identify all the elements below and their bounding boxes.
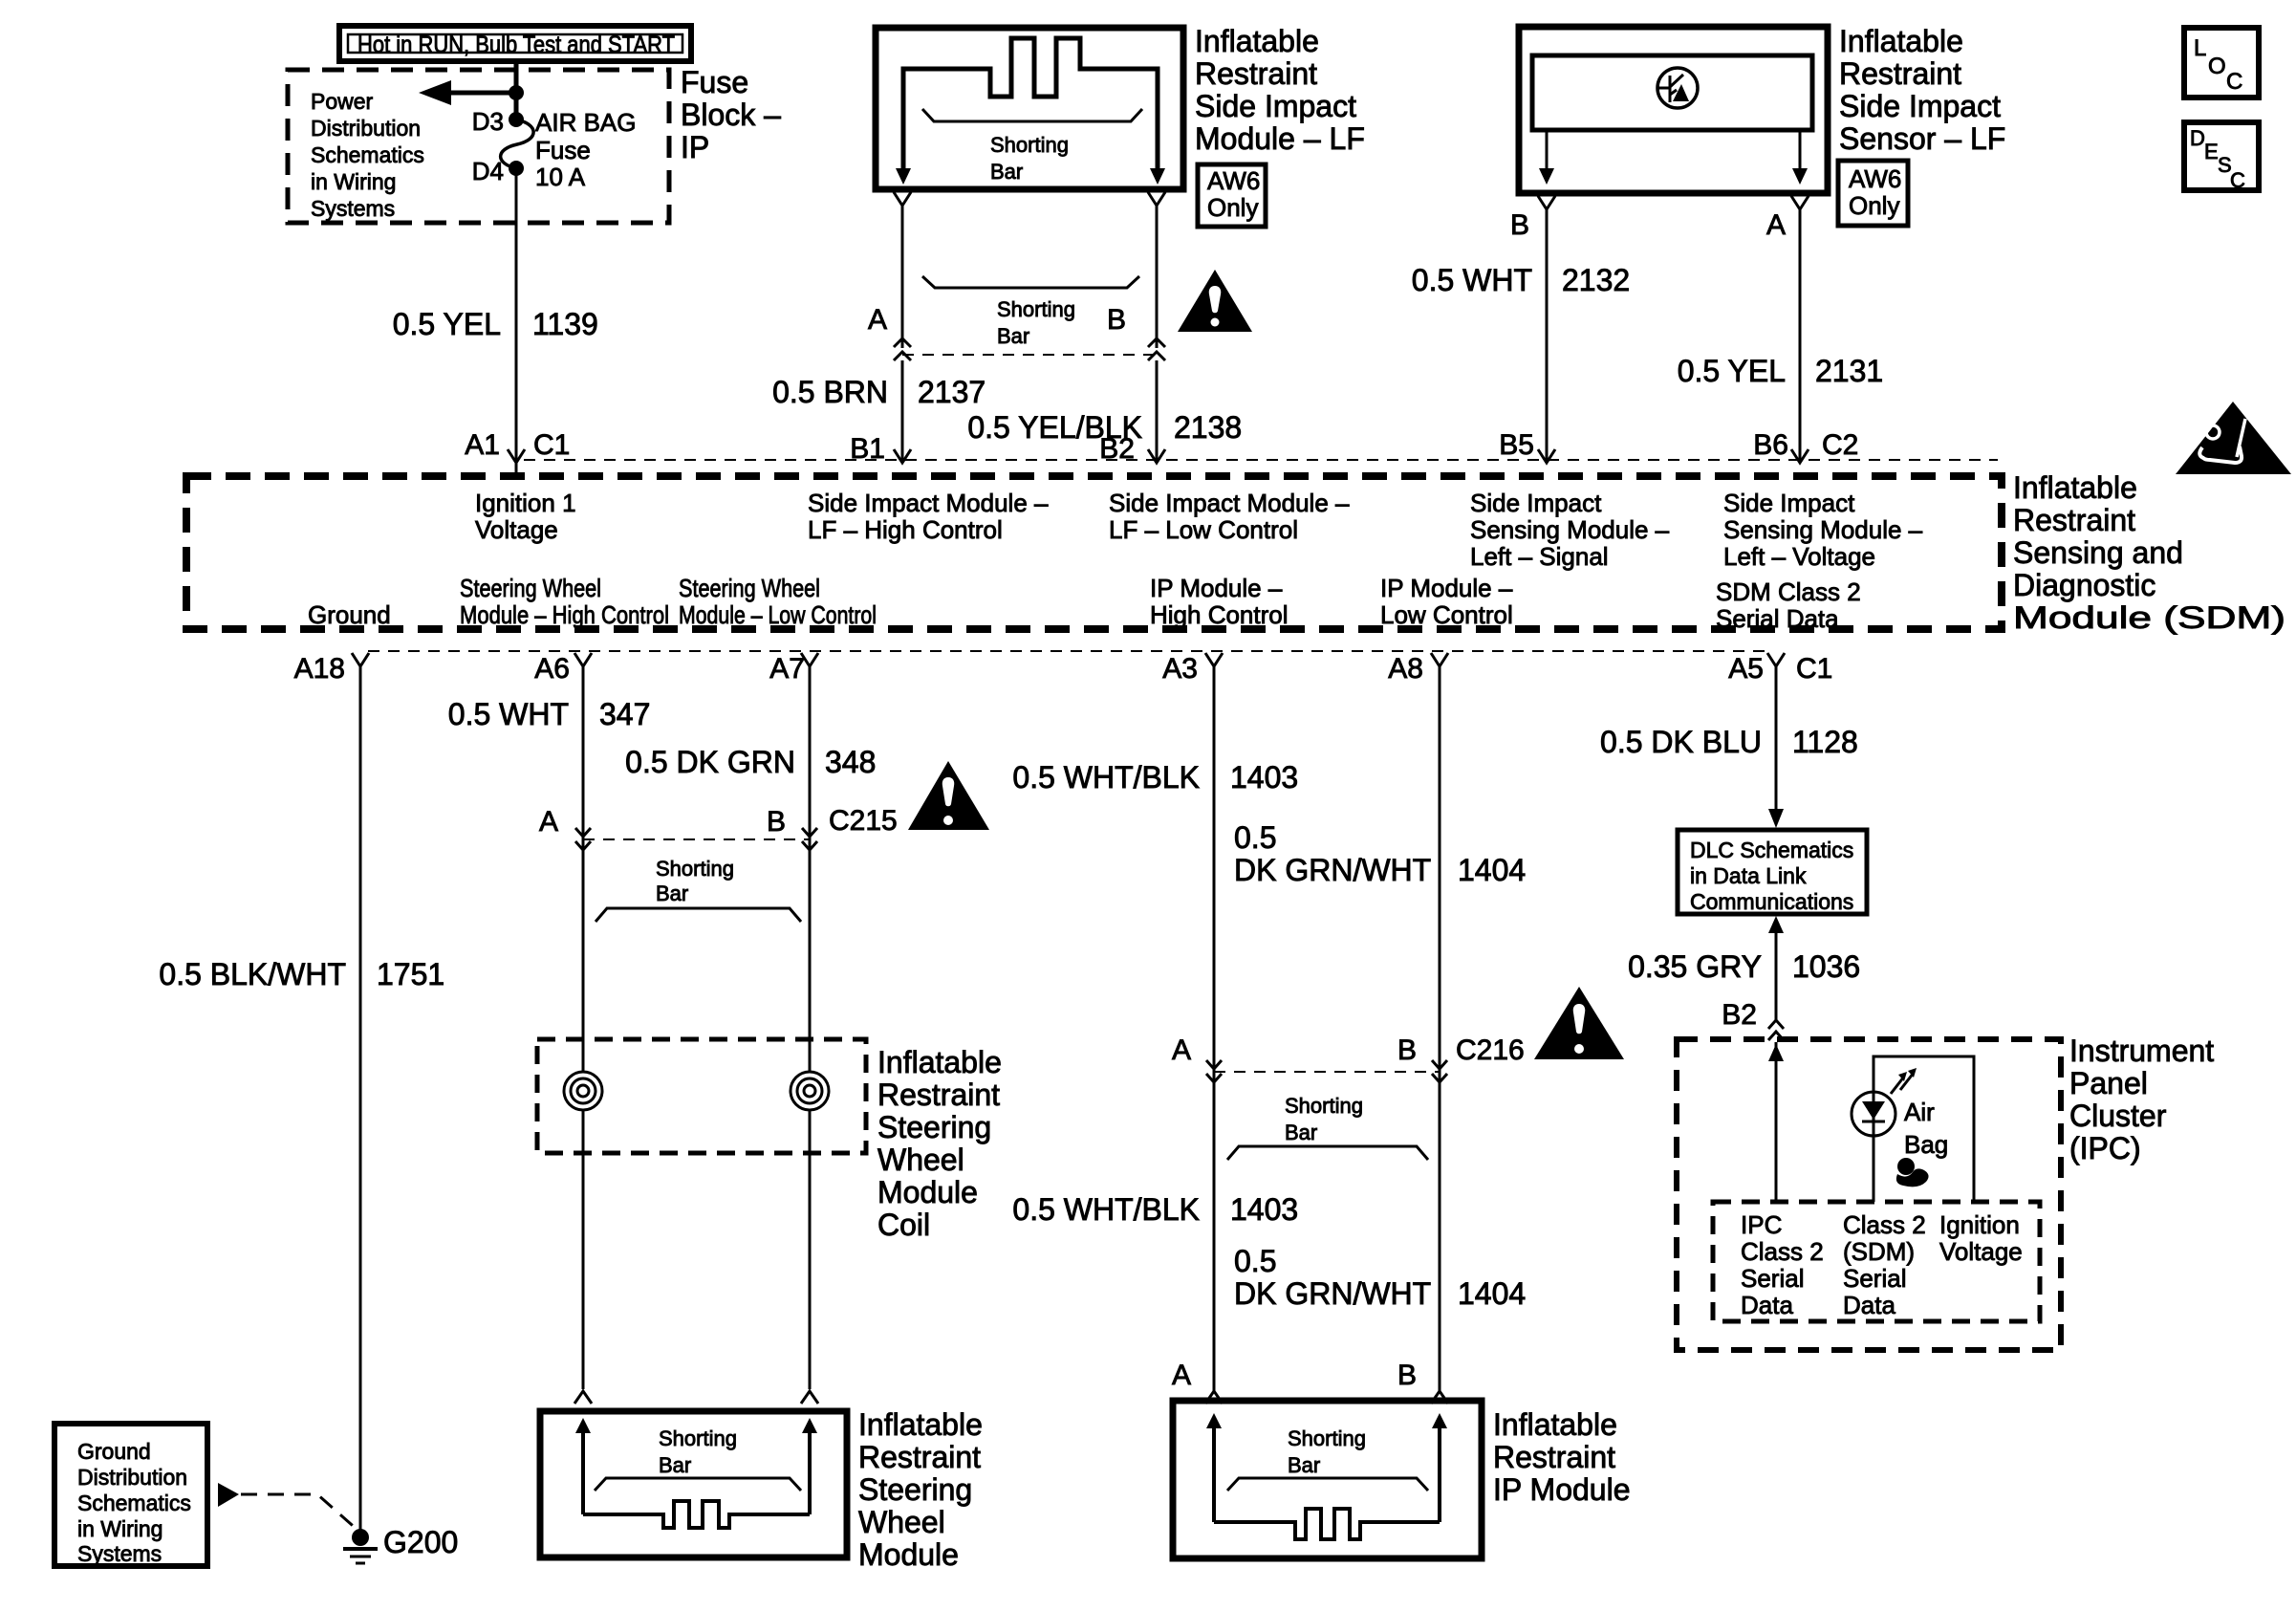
svg-text:Serial: Serial <box>1843 1264 1906 1293</box>
connector at SDM A1 <box>508 449 525 477</box>
wire 2138 to SDM B2 <box>1156 360 1159 463</box>
svg-text:Coil: Coil <box>877 1208 930 1242</box>
svg-text:Restraint: Restraint <box>1839 56 1961 91</box>
svg-text:A: A <box>1172 1360 1191 1391</box>
wire 1403 from SDM A3 <box>1213 666 1216 1391</box>
svg-text:Shorting: Shorting <box>1285 1094 1363 1118</box>
wire coil B to steering module <box>809 1109 812 1389</box>
svg-text:Bar: Bar <box>1285 1121 1317 1144</box>
svg-text:LF – Low Control: LF – Low Control <box>1109 515 1298 544</box>
svg-text:Sensing Module –: Sensing Module – <box>1723 515 1923 544</box>
warning triangle 2 <box>908 761 989 830</box>
node SDM pin function labels bottom row <box>308 574 1861 633</box>
svg-text:in Data Link: in Data Link <box>1690 863 1807 888</box>
svg-text:C1: C1 <box>1796 653 1832 685</box>
svg-text:0.5 WHT: 0.5 WHT <box>448 697 569 731</box>
svg-text:0.5 WHT: 0.5 WHT <box>1412 263 1532 297</box>
svg-text:A18: A18 <box>294 653 345 685</box>
svg-text:Voltage: Voltage <box>1939 1237 2023 1266</box>
svg-text:Serial Data: Serial Data <box>1716 604 1839 633</box>
svg-text:A6: A6 <box>534 653 570 685</box>
svg-text:A8: A8 <box>1388 653 1423 685</box>
IP module box <box>1173 1401 1482 1558</box>
svg-text:Module: Module <box>877 1175 978 1209</box>
node Fuse Block IP label <box>681 65 781 164</box>
svg-text:Sensing Module –: Sensing Module – <box>1470 515 1670 544</box>
svg-text:AW6: AW6 <box>1849 164 1901 193</box>
node IPC pin function labels <box>1741 1210 2023 1319</box>
label 0.5 WHT/BLK 1403 lower <box>1012 1192 1298 1227</box>
squib initiator IP module <box>1214 1509 1440 1539</box>
svg-text:Restraint: Restraint <box>858 1440 981 1474</box>
svg-text:Only: Only <box>1207 193 1258 222</box>
svg-text:Steering Wheel: Steering Wheel <box>460 574 601 602</box>
wire ignition voltage IPC <box>1874 1056 1974 1202</box>
svg-text:0.5: 0.5 <box>1234 820 1276 855</box>
fuse block IP dashed box <box>288 70 669 223</box>
SDM dashed box <box>186 476 2002 629</box>
svg-text:Block –: Block – <box>681 98 781 132</box>
svg-text:Steering: Steering <box>877 1110 991 1144</box>
svg-text:DK GRN/WHT: DK GRN/WHT <box>1234 1276 1431 1311</box>
svg-text:IP Module: IP Module <box>1493 1472 1631 1507</box>
label 0.5 YEL/BLK 2138 <box>967 410 1242 445</box>
svg-text:1404: 1404 <box>1458 853 1526 887</box>
squib initiator steering module <box>583 1501 810 1528</box>
svg-text:348: 348 <box>825 745 876 779</box>
sensor symbol <box>1657 68 1698 108</box>
LED airbag indicator <box>1852 1092 1895 1202</box>
svg-text:Inflatable: Inflatable <box>1839 24 1963 58</box>
svg-text:Data: Data <box>1843 1291 1895 1319</box>
shorting bar inside IP module <box>1227 1426 1428 1491</box>
svg-text:Systems: Systems <box>77 1541 162 1566</box>
label 0.5 YEL 2131 <box>1678 354 1883 388</box>
label 0.5 WHT 2132 <box>1412 263 1630 297</box>
svg-text:B5: B5 <box>1499 429 1534 461</box>
connector chevron IP module A <box>1205 1391 1223 1404</box>
node IP module label <box>1493 1407 1631 1507</box>
svg-text:Module – High Control: Module – High Control <box>460 600 669 629</box>
connector C215 dashed line <box>583 838 810 840</box>
wire dashed reference arrow to ground box <box>218 1483 358 1531</box>
svg-text:Inflatable: Inflatable <box>877 1045 1002 1079</box>
svg-text:Ignition: Ignition <box>1939 1210 2020 1239</box>
svg-text:Restraint: Restraint <box>877 1078 1000 1112</box>
svg-text:2131: 2131 <box>1815 354 1883 388</box>
svg-text:DLC Schematics: DLC Schematics <box>1690 838 1853 862</box>
node DESC box <box>2184 122 2259 192</box>
svg-text:A: A <box>1766 209 1786 241</box>
svg-text:1403: 1403 <box>1230 760 1298 795</box>
svg-text:D: D <box>2190 126 2205 150</box>
svg-text:Module – LF: Module – LF <box>1195 121 1365 156</box>
warning triangle 1 <box>1178 270 1252 332</box>
inline connector chevrons C216 A <box>1206 1060 1222 1082</box>
label 0.5 DK GRN 348 <box>625 745 876 779</box>
wire module LF B to connector <box>1156 206 1159 348</box>
label 0.5 WHT 347 <box>448 697 651 731</box>
svg-text:C215: C215 <box>829 805 898 837</box>
connector at SDM A18 <box>352 653 369 679</box>
svg-text:A7: A7 <box>769 653 805 685</box>
wire 2137 to SDM B1 <box>901 360 904 463</box>
warning triangle seatbelt icon <box>2176 402 2291 474</box>
warning triangle 3 <box>1534 987 1624 1059</box>
wire B2 into IPC with arrow <box>1768 1042 1784 1202</box>
svg-text:High Control: High Control <box>1150 600 1289 629</box>
wire 1139 fuse to SDM A1 <box>515 168 518 461</box>
svg-text:in Wiring: in Wiring <box>77 1516 162 1541</box>
svg-text:Bag: Bag <box>1904 1130 1948 1159</box>
svg-text:Shorting: Shorting <box>1288 1426 1366 1450</box>
shorting bar inside module LF <box>922 109 1142 184</box>
svg-text:0.5 BLK/WHT: 0.5 BLK/WHT <box>159 957 346 991</box>
wire 1036 up to DLC <box>1775 931 1778 1021</box>
svg-text:0.5: 0.5 <box>1234 1244 1276 1278</box>
svg-text:G200: G200 <box>383 1525 458 1559</box>
svg-text:B: B <box>1397 1034 1417 1066</box>
shorting bar below C216 <box>1227 1094 1428 1160</box>
svg-text:C216: C216 <box>1456 1034 1525 1066</box>
node SDM pin function labels top row <box>475 489 1923 571</box>
node Hot in RUN label box <box>339 26 691 61</box>
svg-text:IPC: IPC <box>1741 1210 1782 1239</box>
svg-text:Module – Low Control: Module – Low Control <box>679 600 877 629</box>
svg-text:Inflatable: Inflatable <box>858 1407 983 1442</box>
svg-text:Restraint: Restraint <box>1493 1440 1615 1474</box>
svg-text:Ignition 1: Ignition 1 <box>475 489 576 517</box>
pin A1 C1 <box>465 429 570 461</box>
inline connector chevrons wire 2138 <box>1148 338 1165 360</box>
svg-text:Module: Module <box>858 1537 959 1572</box>
IPC inner dashed box <box>1713 1202 2040 1321</box>
shorting bar inside steering module <box>595 1426 801 1491</box>
inline connector chevrons C216 B <box>1432 1060 1447 1082</box>
module box Side Impact Module LF <box>876 28 1183 189</box>
svg-text:Shorting: Shorting <box>997 297 1075 321</box>
svg-text:E: E <box>2204 140 2219 163</box>
connector at SDM B6 <box>1791 449 1809 463</box>
svg-text:O: O <box>2208 54 2226 79</box>
inline connector chevrons C215 B <box>802 828 817 850</box>
wire branch arrow to power distribution <box>419 80 524 105</box>
connector chevron IP module B <box>1431 1391 1448 1404</box>
svg-text:Instrument: Instrument <box>2069 1034 2214 1068</box>
label 0.5 YEL 1139 <box>393 307 598 341</box>
svg-text:D4: D4 <box>472 157 504 185</box>
svg-text:2132: 2132 <box>1562 263 1630 297</box>
svg-text:Left – Voltage: Left – Voltage <box>1723 542 1875 571</box>
svg-text:Air: Air <box>1904 1098 1935 1126</box>
svg-text:Diagnostic: Diagnostic <box>2013 568 2155 602</box>
svg-text:B: B <box>1510 209 1529 241</box>
svg-text:B: B <box>767 806 786 838</box>
connector at SDM B2 <box>1148 449 1165 463</box>
svg-text:1139: 1139 <box>532 307 598 341</box>
connector chevron steering module A <box>574 1391 592 1404</box>
svg-text:0.35 GRY: 0.35 GRY <box>1628 949 1762 984</box>
svg-text:C2: C2 <box>1822 429 1858 461</box>
svg-text:Ground: Ground <box>77 1439 151 1464</box>
svg-text:0.5 YEL: 0.5 YEL <box>1678 354 1786 388</box>
wire 1751 ground <box>359 666 362 1530</box>
svg-text:B: B <box>1107 304 1126 336</box>
coil dashed box <box>537 1039 866 1153</box>
label 0.5 DK GRN/WHT 1404 upper <box>1234 820 1526 887</box>
svg-text:AW6: AW6 <box>1207 166 1260 195</box>
svg-text:Inflatable: Inflatable <box>2013 470 2137 505</box>
svg-text:Wheel: Wheel <box>877 1143 964 1177</box>
svg-text:B2: B2 <box>1722 999 1757 1031</box>
svg-text:B: B <box>1397 1360 1417 1391</box>
svg-text:Fuse: Fuse <box>535 136 591 164</box>
wire module LF A to connector <box>901 206 904 348</box>
svg-text:Inflatable: Inflatable <box>1195 24 1319 58</box>
wire coil A to steering module <box>582 1109 585 1389</box>
svg-text:Class 2: Class 2 <box>1843 1210 1926 1239</box>
node IPC name label <box>2069 1034 2214 1165</box>
label 0.5 WHT/BLK 1403 upper <box>1012 760 1298 795</box>
node DLC Schematics box <box>1678 830 1867 914</box>
wire 2131 to SDM B6 <box>1799 209 1802 463</box>
connector at module LF pin A <box>894 192 911 206</box>
LED emission arrows <box>1891 1068 1917 1094</box>
wire 347 from SDM A6 <box>582 666 585 1072</box>
svg-text:Distribution: Distribution <box>77 1465 187 1490</box>
connector at sensor pin A <box>1791 196 1809 209</box>
arrow into DLC box <box>1768 809 1784 828</box>
svg-text:0.5 WHT/BLK: 0.5 WHT/BLK <box>1012 1192 1200 1227</box>
svg-text:A5: A5 <box>1728 653 1764 685</box>
fuse F_AIRBAG 10A <box>472 107 637 191</box>
svg-text:1036: 1036 <box>1792 949 1860 984</box>
svg-text:Schematics: Schematics <box>77 1491 191 1515</box>
connector at SDM A5 C1 <box>1767 653 1785 679</box>
svg-text:Sensor – LF: Sensor – LF <box>1839 121 2005 156</box>
svg-text:Side Impact: Side Impact <box>1470 489 1602 517</box>
svg-text:in Wiring: in Wiring <box>311 169 396 194</box>
svg-text:1751: 1751 <box>377 957 444 991</box>
svg-text:A: A <box>868 304 887 336</box>
svg-text:L: L <box>2194 35 2206 61</box>
airbag SRS icon <box>1896 1158 1929 1186</box>
svg-text:10 A: 10 A <box>535 163 586 191</box>
svg-text:1403: 1403 <box>1230 1192 1298 1227</box>
svg-text:A: A <box>1172 1034 1191 1066</box>
svg-text:Bar: Bar <box>1288 1453 1320 1477</box>
svg-text:Side Impact: Side Impact <box>1195 89 1356 123</box>
svg-text:1404: 1404 <box>1458 1276 1526 1311</box>
label 0.35 GRY 1036 <box>1628 949 1860 984</box>
svg-text:C1: C1 <box>533 429 570 461</box>
label 0.5 BLK/WHT 1751 <box>159 957 444 991</box>
svg-text:LF – High Control: LF – High Control <box>808 515 1003 544</box>
svg-text:Schematics: Schematics <box>311 142 424 167</box>
svg-text:Ground: Ground <box>308 600 391 629</box>
connector C216 dashed line <box>1214 1071 1440 1073</box>
svg-text:Class 2: Class 2 <box>1741 1237 1824 1266</box>
node Inflatable Restraint Side Impact Module LF label <box>1195 24 1365 156</box>
inline connector chevrons C215 A <box>575 828 591 850</box>
connector dashed line SDM bottom <box>368 650 1768 652</box>
svg-text:Side Impact Module –: Side Impact Module – <box>1109 489 1350 517</box>
svg-text:Fuse: Fuse <box>681 65 748 99</box>
wire 348 from SDM A7 <box>809 666 812 1072</box>
connector at sensor pin B <box>1538 196 1555 209</box>
node coil label <box>877 1045 1002 1242</box>
arrows into IP module <box>1206 1413 1447 1522</box>
connector at SDM A8 <box>1431 653 1448 679</box>
svg-text:Side Impact Module –: Side Impact Module – <box>808 489 1049 517</box>
svg-text:Power: Power <box>311 89 374 114</box>
connector chevron steering module B <box>801 1391 818 1404</box>
svg-text:Only: Only <box>1849 191 1899 220</box>
wire from Hot feed down to fuse <box>514 60 519 120</box>
svg-text:A3: A3 <box>1162 653 1198 685</box>
svg-text:Bar: Bar <box>997 324 1029 348</box>
svg-text:0.5 WHT/BLK: 0.5 WHT/BLK <box>1012 760 1200 795</box>
svg-text:Steering: Steering <box>858 1472 972 1507</box>
svg-text:1128: 1128 <box>1792 725 1858 759</box>
svg-text:Inflatable: Inflatable <box>1493 1407 1617 1442</box>
ground G200 <box>343 1525 458 1563</box>
connector C1 C2 dashed line SDM top <box>524 459 1998 461</box>
svg-text:Cluster: Cluster <box>2069 1099 2167 1133</box>
node AW6 Only box 1 <box>1198 164 1266 227</box>
svg-text:D3: D3 <box>472 107 504 136</box>
connector at SDM A3 <box>1205 653 1223 679</box>
svg-text:Restraint: Restraint <box>1195 56 1317 91</box>
wire 1128 from SDM A5 <box>1775 666 1778 813</box>
svg-text:Shorting: Shorting <box>656 857 734 881</box>
coil spiral B <box>791 1072 829 1110</box>
shorting bar between module LF connectors <box>922 276 1139 348</box>
svg-text:Shorting: Shorting <box>659 1426 737 1450</box>
node Inflatable Restraint Side Impact Sensor LF label <box>1839 24 2005 156</box>
svg-text:0.5 BRN: 0.5 BRN <box>772 375 888 409</box>
inline connector chevrons wire 2137 <box>894 338 911 360</box>
svg-text:0.5 DK BLU: 0.5 DK BLU <box>1600 725 1762 759</box>
svg-text:Steering Wheel: Steering Wheel <box>679 574 820 602</box>
svg-text:Wheel: Wheel <box>858 1505 945 1539</box>
node AW6 Only box 2 <box>1838 161 1908 226</box>
svg-text:Low Control: Low Control <box>1380 600 1513 629</box>
svg-text:2138: 2138 <box>1174 410 1242 445</box>
svg-text:Left – Signal: Left – Signal <box>1470 542 1609 571</box>
svg-text:(SDM): (SDM) <box>1843 1237 1915 1266</box>
connector at SDM B1 <box>894 449 911 463</box>
svg-text:Side Impact: Side Impact <box>1839 89 2001 123</box>
shorting bar below C215 <box>596 857 801 922</box>
node LOC box <box>2184 28 2259 98</box>
svg-text:C: C <box>2226 69 2242 95</box>
svg-text:DK GRN/WHT: DK GRN/WHT <box>1234 853 1431 887</box>
svg-text:(IPC): (IPC) <box>2069 1131 2141 1165</box>
connector dashed line module LF <box>902 354 1157 356</box>
svg-text:0.5 DK GRN: 0.5 DK GRN <box>625 745 795 779</box>
sensor box Side Impact Sensor LF <box>1519 27 1828 193</box>
squib initiator inside module LF <box>896 38 1165 185</box>
svg-text:Hot in RUN, Bulb Test and STAR: Hot in RUN, Bulb Test and START <box>357 32 675 58</box>
svg-text:IP Module –: IP Module – <box>1380 574 1513 602</box>
svg-text:Serial: Serial <box>1741 1264 1804 1293</box>
inline connector chevrons B2 <box>1768 1020 1784 1040</box>
svg-text:Module (SDM): Module (SDM) <box>2013 600 2285 635</box>
IPC dashed box <box>1677 1039 2061 1350</box>
arrows into steering module <box>575 1418 817 1514</box>
svg-text:Bar: Bar <box>656 882 688 905</box>
svg-text:Communications: Communications <box>1690 889 1853 914</box>
svg-text:Distribution: Distribution <box>311 116 421 141</box>
node SDM name label <box>2013 470 2285 635</box>
svg-text:A: A <box>539 806 558 838</box>
svg-text:SDM Class 2: SDM Class 2 <box>1716 577 1861 606</box>
svg-text:Bar: Bar <box>659 1453 691 1477</box>
svg-text:347: 347 <box>599 697 650 731</box>
svg-text:C: C <box>2230 168 2245 192</box>
svg-text:0.5 YEL: 0.5 YEL <box>393 307 501 341</box>
svg-text:Restraint: Restraint <box>2013 503 2135 537</box>
label 0.5 DK BLU 1128 <box>1600 725 1858 759</box>
svg-text:Systems: Systems <box>311 196 395 221</box>
node steering wheel module label <box>858 1407 983 1572</box>
svg-text:IP: IP <box>681 130 709 164</box>
svg-text:Panel: Panel <box>2069 1066 2148 1100</box>
svg-text:B6: B6 <box>1753 429 1788 461</box>
wire 1404 from SDM A8 <box>1439 666 1441 1391</box>
arrow into DLC bottom <box>1768 916 1784 933</box>
steering wheel module box <box>540 1411 847 1557</box>
node Power Distribution reference text <box>311 89 424 221</box>
svg-text:Side Impact: Side Impact <box>1723 489 1855 517</box>
connector at SDM A6 <box>574 653 592 679</box>
node Ground Distribution reference box <box>54 1424 207 1566</box>
svg-text:AIR BAG: AIR BAG <box>535 108 636 137</box>
svg-text:Shorting: Shorting <box>990 133 1069 157</box>
sensor internal wires with arrows <box>1539 130 1808 185</box>
svg-text:Bar: Bar <box>990 160 1023 184</box>
svg-text:Sensing and: Sensing and <box>2013 535 2183 570</box>
connector at SDM A7 <box>801 653 818 679</box>
wire 2132 to SDM B5 <box>1546 209 1549 463</box>
svg-text:IP Module –: IP Module – <box>1150 574 1283 602</box>
svg-text:A1: A1 <box>465 429 500 461</box>
connector at SDM B5 <box>1538 449 1555 463</box>
svg-text:Data: Data <box>1741 1291 1793 1319</box>
connector at module LF pin B <box>1148 192 1165 206</box>
coil spiral A <box>564 1072 602 1110</box>
label 0.5 DK GRN/WHT 1404 lower <box>1234 1244 1526 1311</box>
label 0.5 BRN 2137 <box>772 375 986 409</box>
svg-text:Voltage: Voltage <box>475 515 558 544</box>
svg-text:2137: 2137 <box>918 375 986 409</box>
node Air Bag label <box>1904 1098 1948 1159</box>
